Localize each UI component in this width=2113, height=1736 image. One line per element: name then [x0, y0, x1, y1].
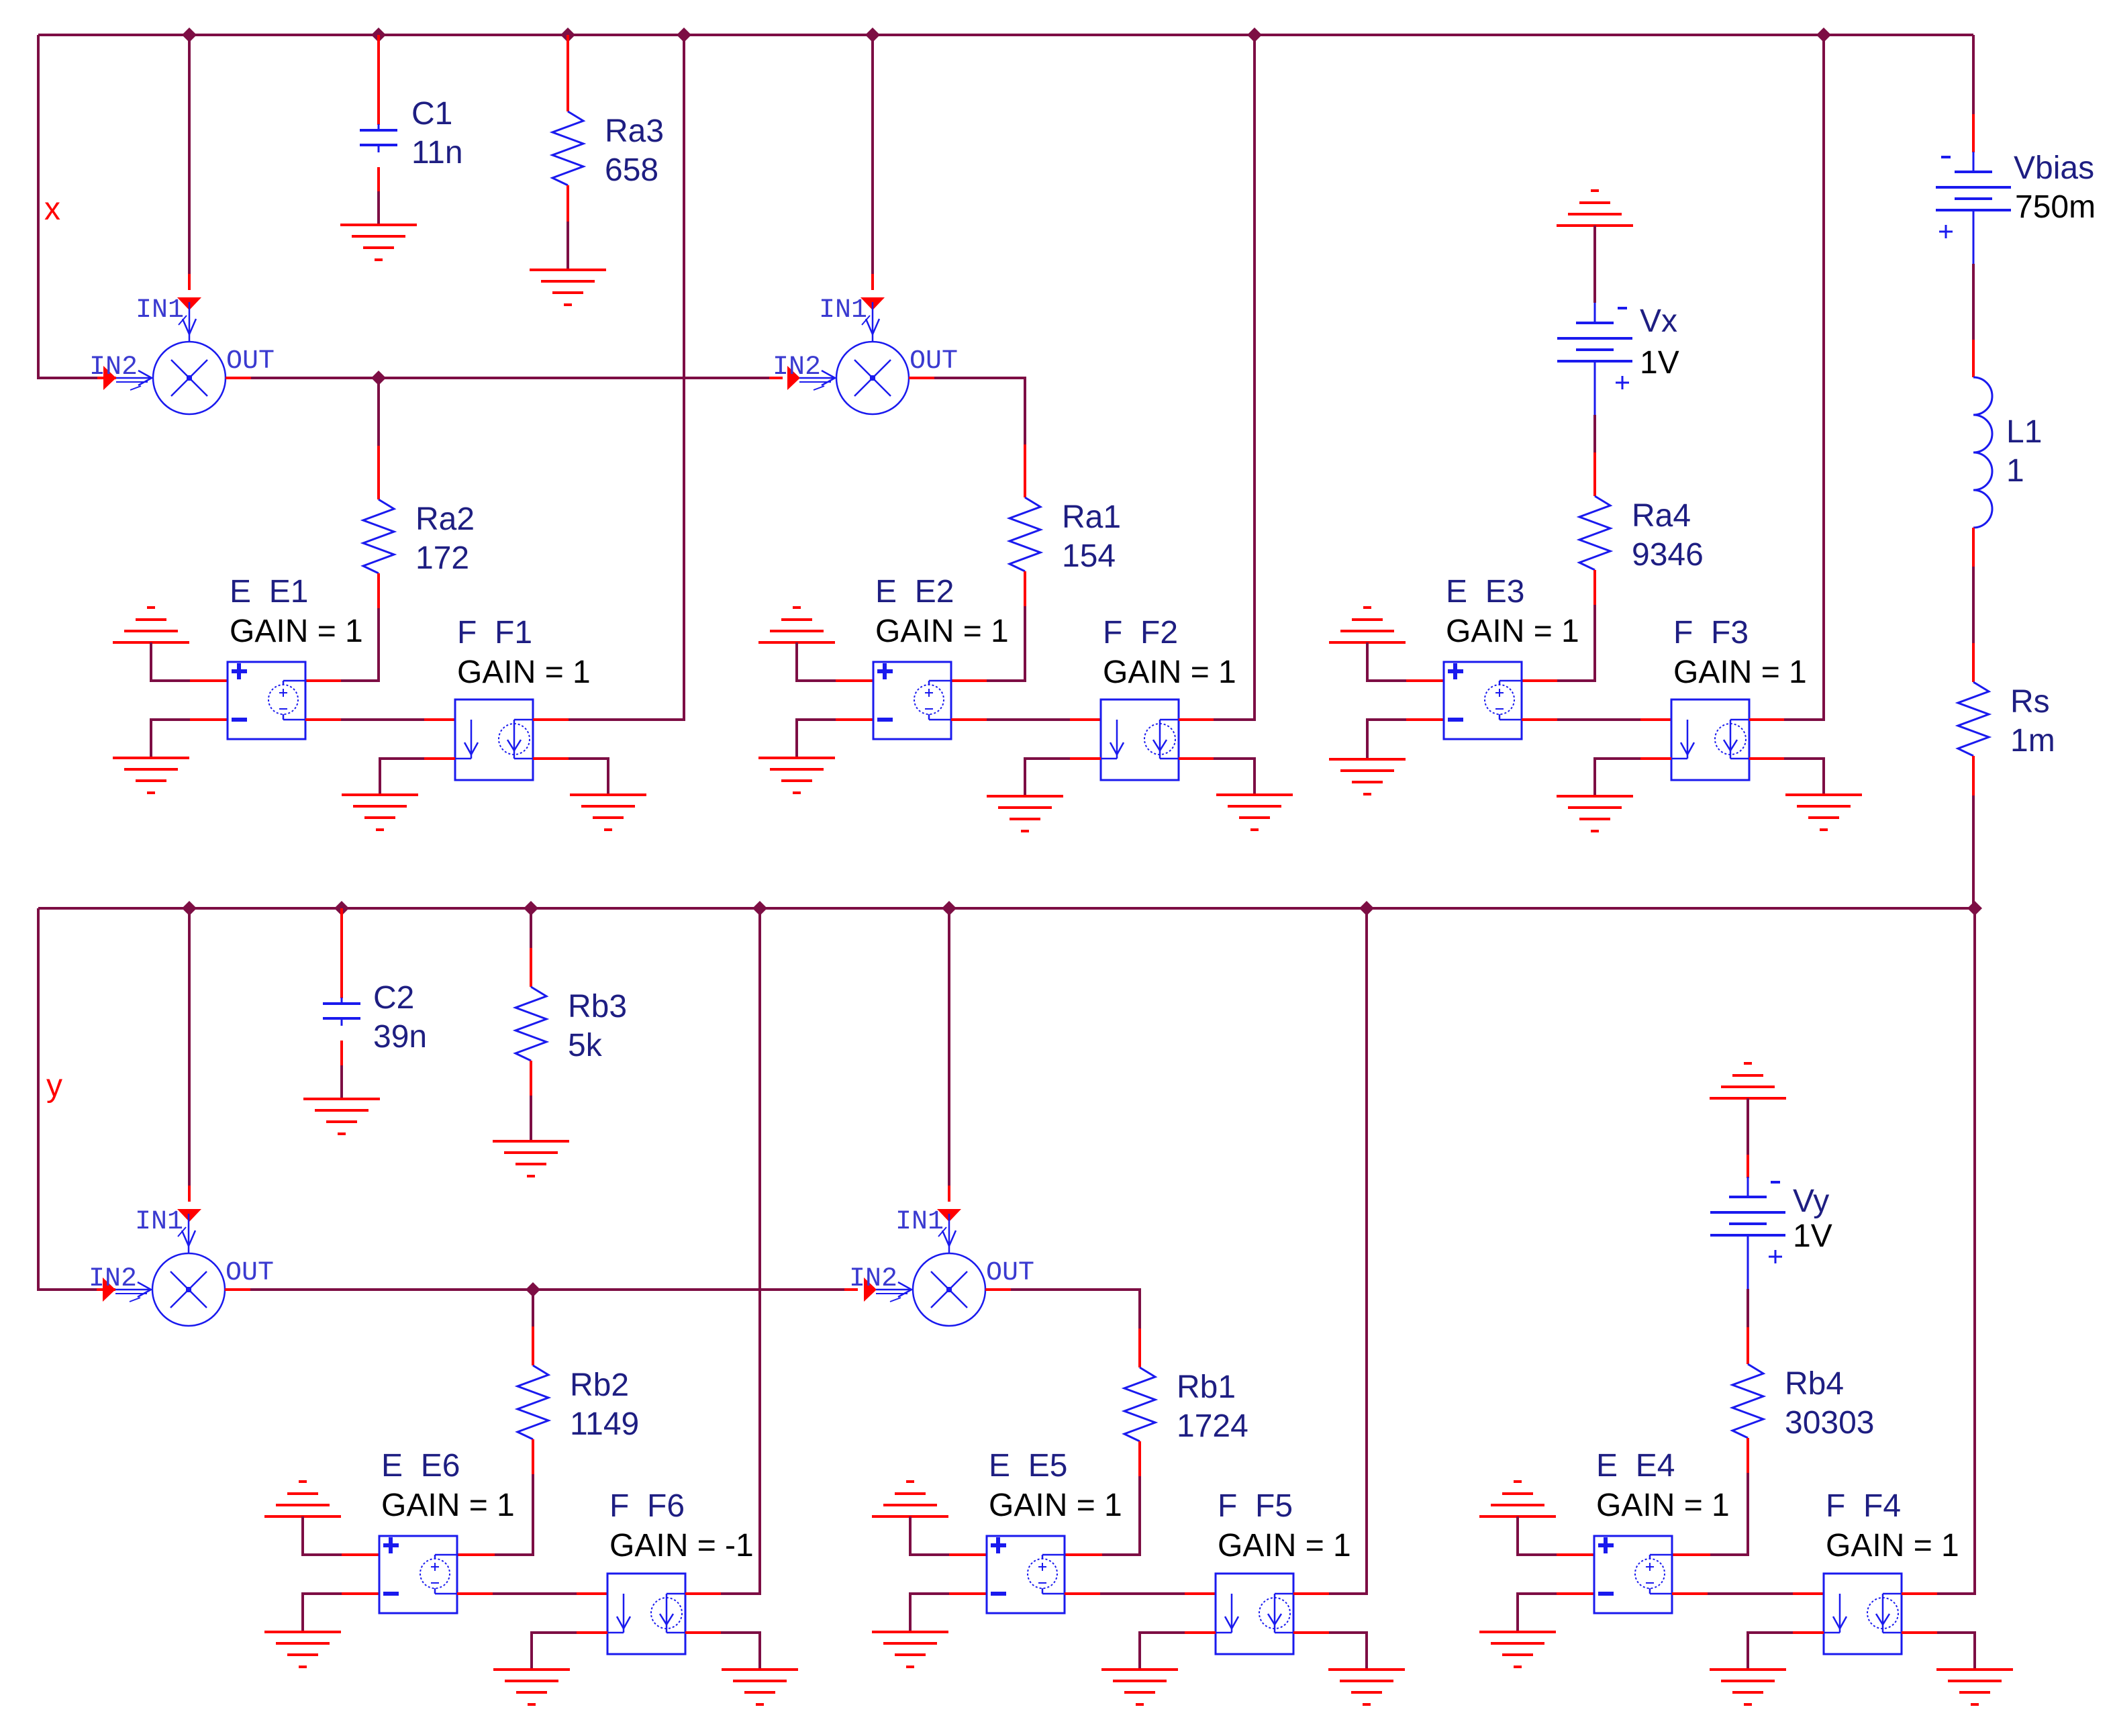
pin stub Vbias top — [1972, 114, 1975, 152]
node x label — [44, 191, 60, 227]
resistor Ra4 — [1579, 496, 1610, 570]
ground below-right of F1 — [570, 795, 646, 830]
L1 value 1 — [2006, 453, 2024, 489]
E6 name label — [381, 1448, 460, 1484]
E source E5 — [987, 1536, 1065, 1613]
wire E4 to F4 — [1708, 1592, 1793, 1595]
wire F6 left bottom to ground — [532, 1633, 577, 1670]
svg-text:E E1: E E1 — [230, 574, 308, 610]
E4 gain label — [1596, 1488, 1730, 1523]
wire Ra3 to top bus — [567, 35, 569, 111]
ground below-right of F4 — [1936, 1670, 2013, 1704]
Ra2 value 172 — [415, 540, 469, 576]
E1 gain label — [230, 614, 363, 649]
pin stub Rb1 bottom — [1138, 1441, 1141, 1476]
junction on top bus at F3 output wire — [1816, 28, 1831, 42]
pin stub Rs bottom — [1972, 756, 1975, 795]
L1 label — [2006, 414, 2042, 450]
pin stub E1 + input — [190, 679, 228, 682]
svg-text:1m: 1m — [2010, 723, 2055, 759]
pin stub E5 + output side — [1065, 1553, 1102, 1556]
ground below E6 — [264, 1632, 341, 1667]
pin stub E5 - input — [949, 1592, 987, 1595]
E5 gain label — [989, 1488, 1122, 1523]
Vx value 1V — [1640, 345, 1679, 381]
multiplier U_A1 — [116, 302, 226, 414]
Ra4 value 9346 — [1632, 537, 1704, 573]
wire Vbias to L1 — [1972, 264, 1975, 340]
svg-text:750m: 750m — [2015, 189, 2096, 225]
wire Rs to y bus — [1972, 795, 1975, 908]
wire F3 right bottom to ground — [1784, 759, 1824, 795]
ground below-right of F5 — [1328, 1670, 1405, 1704]
F4 gain label — [1826, 1528, 1959, 1563]
Rs label — [2010, 684, 2050, 720]
wire upper ground to E3 + — [1367, 642, 1406, 681]
Rs value 1m — [2010, 723, 2055, 759]
multiplier U_A2 — [799, 302, 909, 414]
multiplier U_B2 — [876, 1214, 985, 1326]
wire B2 OUT down to Rb1 — [1011, 1290, 1140, 1329]
pin label IN2 of B1 — [89, 1264, 137, 1294]
pin stub Rb4 bottom — [1747, 1438, 1749, 1473]
wire lower ground to E6 - — [303, 1594, 342, 1632]
pin stub multiplier A1 OUT — [226, 377, 251, 379]
wire Rb1 to E5 + pin — [1102, 1476, 1140, 1555]
pin stub F3 left bottom — [1640, 757, 1671, 760]
junction on y bus at Rb3 — [524, 901, 538, 916]
pin stub F1 left bottom — [424, 757, 455, 760]
E source E6 — [379, 1536, 457, 1613]
red arrow into A1 IN2 — [103, 366, 116, 390]
wire E5 to F5 — [1100, 1592, 1185, 1595]
pin stub Ra2 bottom — [377, 573, 380, 608]
svg-text:Rb2: Rb2 — [570, 1367, 629, 1403]
wire Ra2 to E1 + pin — [341, 608, 379, 681]
svg-text:IN1: IN1 — [895, 1207, 944, 1237]
svg-text:IN2: IN2 — [773, 352, 821, 383]
wire F5 output up to y bus — [1329, 908, 1367, 1594]
pin stub E4 - output side — [1672, 1592, 1708, 1595]
wire C1 to top bus — [377, 35, 380, 125]
inverted ground above Vy — [1710, 1063, 1786, 1098]
F1 name label — [457, 615, 532, 650]
red arrow into A1 IN1 — [177, 297, 201, 310]
svg-text:1: 1 — [2006, 453, 2024, 489]
pin stub multiplier A1 IN2 — [97, 377, 116, 379]
svg-text:11n: 11n — [411, 135, 463, 171]
wire E1 to F1 — [341, 718, 424, 721]
pin stub multiplier B1 OUT — [225, 1288, 250, 1291]
red arrow into B2 IN1 — [937, 1209, 961, 1222]
pin stub E2 + input — [836, 679, 873, 682]
pin stub E3 - input — [1406, 718, 1444, 721]
C2 value 39n — [373, 1019, 427, 1055]
wire top bus (node x) — [38, 34, 1973, 36]
pin label OUT of A1 — [226, 346, 275, 377]
ground below-left of F2 — [987, 796, 1063, 831]
ground below E5 — [872, 1632, 948, 1667]
E source E3 — [1444, 662, 1522, 739]
svg-text:F F4: F F4 — [1826, 1488, 1901, 1524]
pin stub F5 right bottom — [1293, 1631, 1329, 1634]
pin stub Ra4 top — [1593, 452, 1596, 496]
wire F2 output up to top bus — [1214, 35, 1255, 720]
red arrow into B1 IN1 — [177, 1209, 201, 1222]
wire F1 right bottom to ground — [569, 759, 608, 795]
svg-text:5k: 5k — [568, 1028, 603, 1063]
svg-text:GAIN = 1: GAIN = 1 — [1826, 1528, 1959, 1563]
wire F3 left bottom to ground — [1595, 759, 1640, 796]
pin stub E1 - input — [190, 718, 228, 721]
svg-text:E E4: E E4 — [1596, 1448, 1675, 1484]
pin stub F4 right bottom — [1902, 1631, 1937, 1634]
Vbias label — [2014, 150, 2094, 186]
Vbias polarity marks — [1939, 157, 1953, 238]
junction on top bus at Ra3 — [560, 28, 575, 42]
wire F3 output up to top bus — [1784, 35, 1824, 720]
Ra1 label — [1062, 499, 1121, 535]
E4 name label — [1596, 1448, 1675, 1484]
wire Rb4 to E4 + pin — [1710, 1473, 1748, 1555]
svg-text:OUT: OUT — [910, 346, 958, 377]
svg-text:GAIN = -1: GAIN = -1 — [609, 1528, 754, 1563]
inductor L1 — [1973, 377, 1992, 528]
ground below Ra3 — [530, 270, 606, 305]
pin stub E1 - output side — [305, 718, 341, 721]
wire F5 right bottom to ground — [1329, 1633, 1367, 1670]
svg-text:GAIN = 1: GAIN = 1 — [1673, 655, 1807, 690]
pin stub Ra4 bottom — [1593, 570, 1596, 605]
red arrow into A2 IN2 — [787, 366, 800, 390]
pin stub E4 - input — [1557, 1592, 1594, 1595]
resistor Ra3 — [552, 111, 583, 185]
F2 name label — [1103, 615, 1178, 650]
C1 label — [411, 96, 452, 132]
wire y bus (node y) — [38, 907, 1975, 910]
battery Vy — [1710, 1177, 1785, 1289]
resistor Rb2 — [518, 1365, 548, 1439]
svg-text:Rs: Rs — [2010, 684, 2050, 720]
wire C1 to ground — [377, 167, 380, 225]
wire Rb3 to ground — [530, 1096, 532, 1141]
wire upper ground to E2 + — [797, 642, 836, 681]
wire F4 output up to y bus — [1937, 908, 1975, 1594]
pin stub Rb1 top — [1138, 1329, 1141, 1367]
svg-text:IN1: IN1 — [136, 295, 184, 326]
resistor Ra1 — [1010, 497, 1040, 571]
wire multiplier A2 IN1 from top bus — [871, 35, 874, 274]
Vy label — [1793, 1184, 1829, 1219]
pin stub E2 - input — [836, 718, 873, 721]
Rb4 value 30303 — [1785, 1405, 1874, 1441]
pin stub Rb2 bottom — [532, 1439, 534, 1474]
E3 gain label — [1446, 614, 1579, 649]
wire A2 OUT down to Ra1 — [934, 378, 1025, 444]
svg-text:IN2: IN2 — [89, 352, 138, 383]
junction on B1 OUT wire at Rb2 — [526, 1282, 540, 1297]
junction on top bus at multiplier A2 IN1 — [865, 28, 880, 42]
svg-text:GAIN = 1: GAIN = 1 — [875, 614, 1009, 649]
E5 name label — [989, 1448, 1067, 1484]
inverted ground above E1 — [113, 608, 189, 642]
red arrow into A2 IN1 — [861, 297, 885, 310]
Ra1 value 154 — [1062, 538, 1116, 574]
F5 gain label — [1218, 1528, 1351, 1563]
svg-text:1V: 1V — [1793, 1218, 1832, 1254]
wire top of Rb2 — [532, 1290, 534, 1327]
svg-text:GAIN = 1: GAIN = 1 — [1218, 1528, 1351, 1563]
junction on y bus at F5 output wire — [1359, 901, 1374, 916]
Vy polarity marks — [1769, 1182, 1782, 1263]
svg-text:GAIN = 1: GAIN = 1 — [381, 1488, 515, 1523]
wire upper ground to E1 + — [151, 642, 190, 681]
junction on top bus at C1 — [371, 28, 386, 42]
wire multiplier B1 IN1 from y bus — [188, 908, 191, 1186]
wire ground to Vy — [1747, 1098, 1749, 1155]
pin label IN1 of B1 — [135, 1207, 183, 1237]
svg-text:Rb4: Rb4 — [1785, 1366, 1844, 1402]
Rb1 value 1724 — [1177, 1408, 1248, 1444]
ground below-left of F5 — [1101, 1670, 1178, 1704]
pin stub F2 left bottom — [1070, 757, 1101, 760]
svg-text:GAIN = 1: GAIN = 1 — [1446, 614, 1579, 649]
F6 gain label — [609, 1528, 754, 1563]
pin stub F3 right top — [1749, 718, 1784, 721]
inverted ground above E2 — [758, 608, 835, 642]
ground below C2 — [303, 1099, 380, 1134]
wire C2 to ground — [340, 1041, 343, 1099]
pin stub F4 left top — [1793, 1592, 1824, 1595]
battery Vbias — [1936, 152, 2011, 264]
svg-text:Vbias: Vbias — [2014, 150, 2094, 186]
svg-text:9346: 9346 — [1632, 537, 1704, 573]
pin stub E6 + output side — [457, 1553, 495, 1556]
Rb1 label — [1177, 1369, 1236, 1405]
wire lower ground to E3 - — [1367, 720, 1406, 759]
resistor Rb3 — [515, 987, 546, 1061]
wire F2 right bottom to ground — [1214, 759, 1255, 795]
svg-text:Ra4: Ra4 — [1632, 498, 1691, 534]
inverted ground above E6 — [264, 1482, 341, 1516]
Vy value 1V — [1793, 1218, 1832, 1254]
svg-text:IN2: IN2 — [89, 1264, 137, 1294]
pin stub E4 + input — [1557, 1553, 1594, 1556]
pin stub E2 + output side — [951, 679, 987, 682]
pin stub E5 + input — [949, 1553, 987, 1556]
pin label OUT of B1 — [226, 1258, 274, 1288]
svg-text:GAIN = 1: GAIN = 1 — [457, 655, 591, 690]
F source F5 — [1216, 1574, 1293, 1654]
svg-text:GAIN = 1: GAIN = 1 — [1596, 1488, 1730, 1523]
inverted ground above Vx — [1557, 191, 1633, 226]
wire Ra3 to ground — [567, 222, 569, 270]
Ra2 label — [415, 501, 475, 537]
pin stub Rb2 top — [532, 1327, 534, 1365]
wire ground to Vx — [1593, 226, 1596, 303]
pin stub F4 right top — [1902, 1592, 1937, 1595]
junction on y bus at C2 — [334, 901, 349, 916]
Vx label — [1640, 303, 1677, 339]
wire lower ground to E4 - — [1518, 1594, 1557, 1632]
ground below-left of F1 — [342, 795, 418, 830]
wire C2 to y bus — [340, 908, 343, 998]
svg-text:y: y — [46, 1068, 62, 1104]
ground below-right of F6 — [722, 1670, 798, 1704]
wire left edge x-net — [38, 35, 97, 378]
pin stub F2 right top — [1179, 718, 1214, 721]
pin stub E3 + output side — [1522, 679, 1557, 682]
pin stub Ra1 top — [1024, 444, 1026, 497]
wire F1 output up to top bus — [569, 35, 684, 720]
Vx polarity marks — [1616, 308, 1629, 389]
ground below C1 — [340, 225, 417, 260]
svg-text:39n: 39n — [373, 1019, 427, 1055]
Rb2 label — [570, 1367, 629, 1403]
red arrow into B1 IN2 — [103, 1277, 115, 1302]
ground below-left of F4 — [1710, 1670, 1786, 1704]
pin stub Rb3 bottom — [530, 1061, 532, 1096]
wire F6 output up to y bus — [721, 908, 760, 1594]
pin stub F3 left top — [1640, 718, 1671, 721]
svg-text:F F6: F F6 — [609, 1488, 685, 1524]
svg-text:IN1: IN1 — [819, 295, 867, 326]
svg-text:30303: 30303 — [1785, 1405, 1874, 1441]
junction on top bus at F2 output wire — [1247, 28, 1262, 42]
junction on y bus at multiplier B2 IN1 — [942, 901, 956, 916]
svg-text:GAIN = 1: GAIN = 1 — [989, 1488, 1122, 1523]
capacitor C2 — [323, 998, 360, 1026]
pin label IN2 of A2 — [773, 352, 821, 383]
pin stub E6 - output side — [457, 1592, 493, 1595]
svg-text:OUT: OUT — [226, 346, 275, 377]
svg-text:Vy: Vy — [1793, 1184, 1829, 1219]
ground below E1 — [113, 758, 189, 793]
pin stub L1 top — [1972, 340, 1975, 377]
pin stub Vy top — [1747, 1155, 1749, 1178]
wire Ra1 to E2 + pin — [987, 606, 1025, 681]
svg-text:1V: 1V — [1640, 345, 1679, 381]
pin stub F2 right bottom — [1179, 757, 1214, 760]
svg-text:IN2: IN2 — [849, 1264, 897, 1294]
wire multiplier A1 IN1 from top bus — [188, 35, 191, 274]
pin stub L1 bottom — [1972, 528, 1975, 567]
E1 name label — [230, 574, 308, 610]
pin stub Rb3 top — [530, 948, 532, 987]
pin stub E2 - output side — [951, 718, 987, 721]
svg-text:1149: 1149 — [570, 1406, 639, 1442]
C1 value 11n — [411, 135, 463, 171]
ground below E4 — [1479, 1632, 1556, 1667]
E6 gain label — [381, 1488, 515, 1523]
svg-text:C2: C2 — [373, 980, 414, 1016]
svg-text:Ra3: Ra3 — [605, 113, 664, 149]
junction on top bus at F1 output wire — [677, 28, 691, 42]
pin label IN2 of A1 — [89, 352, 138, 383]
wire F6 right bottom to ground — [721, 1633, 760, 1670]
multiplier U_B1 — [115, 1214, 225, 1326]
F source F3 — [1671, 700, 1749, 780]
svg-text:154: 154 — [1062, 538, 1116, 574]
pin stub F6 left bottom — [577, 1631, 607, 1634]
F4 name label — [1826, 1488, 1901, 1524]
junction on A1 OUT wire at Ra2 — [371, 371, 386, 385]
resistor Rb4 — [1732, 1364, 1763, 1438]
pin stub F5 left bottom — [1185, 1631, 1216, 1634]
wire Ra4 to E3 + pin — [1557, 605, 1595, 681]
Ra3 value 658 — [605, 152, 658, 188]
F source F4 — [1824, 1574, 1902, 1654]
F2 gain label — [1103, 655, 1236, 690]
wire top of Ra2 — [377, 378, 380, 446]
node y label — [46, 1068, 62, 1104]
svg-text:F F1: F F1 — [457, 615, 532, 650]
E2 gain label — [875, 614, 1009, 649]
pin stub Rs top — [1972, 643, 1975, 682]
F source F2 — [1101, 700, 1179, 780]
F source F6 — [607, 1574, 685, 1654]
pin label IN1 of A2 — [819, 295, 867, 326]
capacitor C1 — [360, 124, 397, 152]
svg-text:L1: L1 — [2006, 414, 2042, 450]
E2 name label — [875, 574, 954, 610]
junction on y bus at Rs / F4 wire — [1967, 901, 1982, 916]
pin stub F1 right bottom — [533, 757, 569, 760]
Rb3 label — [568, 989, 627, 1024]
pin stub multiplier B2 IN1 — [948, 1186, 950, 1202]
wire Rb3 to y bus — [530, 908, 532, 948]
pin stub F2 left top — [1070, 718, 1101, 721]
wire F1 left bottom to ground — [380, 759, 424, 795]
wire F5 left bottom to ground — [1140, 1633, 1185, 1670]
wire B1 OUT to B2 IN2 — [250, 1288, 844, 1291]
ground below-left of F6 — [493, 1670, 570, 1704]
pin stub E6 - input — [342, 1592, 379, 1595]
junction on y bus at multiplier B1 IN1 — [182, 901, 197, 916]
svg-text:Rb1: Rb1 — [1177, 1369, 1236, 1405]
ground below-left of F3 — [1557, 796, 1633, 831]
resistor Rb1 — [1124, 1367, 1155, 1441]
svg-text:C1: C1 — [411, 96, 452, 132]
resistor Ra2 — [363, 499, 394, 573]
wire lower ground to E5 - — [910, 1594, 949, 1632]
wire L1 to Rs — [1972, 567, 1975, 643]
Vbias value 750m — [2015, 189, 2096, 225]
wire E2 to F2 — [987, 718, 1070, 721]
battery Vx — [1557, 303, 1632, 415]
pin stub E3 + input — [1406, 679, 1444, 682]
pin stub multiplier B1 IN1 — [188, 1186, 191, 1202]
F5 name label — [1218, 1488, 1293, 1524]
wire top bus corner to Vbias — [1972, 35, 1975, 114]
svg-text:F F5: F F5 — [1218, 1488, 1293, 1524]
pin stub multiplier A2 IN1 — [871, 274, 874, 290]
pin stub before A2 IN2 arrow — [769, 377, 783, 379]
wire F4 left bottom to ground — [1748, 1633, 1793, 1670]
Ra4 label — [1632, 498, 1691, 534]
pin stub Ra3 bottom — [567, 185, 569, 222]
pin label OUT of B2 — [986, 1258, 1034, 1288]
svg-text:F F3: F F3 — [1673, 615, 1749, 650]
wire Vx to Ra4 — [1593, 415, 1596, 452]
F3 gain label — [1673, 655, 1807, 690]
wire multiplier B2 IN1 from y bus — [948, 908, 950, 1186]
svg-text:E E3: E E3 — [1446, 574, 1524, 610]
svg-text:Ra2: Ra2 — [415, 501, 475, 537]
pin stub multiplier B1 IN2 — [97, 1288, 115, 1291]
pin stub F6 left top — [577, 1592, 607, 1595]
wire lower ground to E1 - — [151, 720, 190, 758]
